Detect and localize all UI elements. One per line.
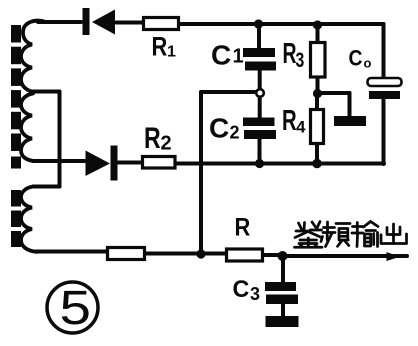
node dot R3-R4 midpoint xyxy=(313,89,322,98)
svg-text:C: C xyxy=(209,113,229,144)
wire ground branch horizontal xyxy=(322,91,350,95)
svg-text:3: 3 xyxy=(296,48,305,72)
svg-text:C: C xyxy=(211,40,231,71)
capacitor C0 top plate (outlined) xyxy=(368,78,402,86)
figure number circle 5 xyxy=(47,282,98,333)
inductor winding tertiary xyxy=(21,187,37,252)
wire D2 to R2 xyxy=(117,161,142,165)
inductor winding upper (secondary top half) xyxy=(21,21,46,92)
char 鉴 xyxy=(296,223,308,232)
char 输 xyxy=(352,223,363,247)
wire right rail upper (corner to C0 top) xyxy=(382,24,386,78)
svg-text:4: 4 xyxy=(296,118,306,137)
wire centre-tap vertical down to tertiary xyxy=(58,92,62,187)
resistor small unlabelled (tertiary series) xyxy=(108,248,145,260)
wire ground branch vertical xyxy=(348,93,352,116)
wire node to C2 top stem xyxy=(258,98,262,118)
wire top rail left (coil top to D1) xyxy=(38,20,81,24)
svg-text:R: R xyxy=(235,213,251,241)
svg-text:2: 2 xyxy=(161,133,172,155)
wire output line xyxy=(282,254,407,258)
node dot output junction / C3 xyxy=(278,251,288,261)
svg-text:5: 5 xyxy=(60,281,92,335)
Chinese label 鉴频输出 drawn as strokes xyxy=(295,222,407,248)
wire top rail R1 to top-right corner xyxy=(179,22,384,26)
node dot top rail / C1 xyxy=(254,19,263,28)
wire R4 bottom stem xyxy=(315,144,319,161)
wire C1 top stem xyxy=(257,26,261,48)
inductor winding middle (secondary bottom half) xyxy=(21,94,34,162)
capacitor C3 plates xyxy=(265,282,296,291)
svg-text:R: R xyxy=(152,32,168,62)
resistor R3 (vertical) xyxy=(311,43,326,78)
capacitor C1 plates xyxy=(243,48,275,57)
svg-text:R: R xyxy=(282,105,297,137)
capacitor C0 bottom plate (solid) xyxy=(369,91,400,99)
svg-text:R: R xyxy=(283,38,297,70)
wire R3 top stem xyxy=(316,26,320,42)
ground bar (near C0) xyxy=(334,116,366,126)
output arrowhead xyxy=(387,252,401,261)
wire C3 top stem xyxy=(281,260,285,282)
wire C2 bottom stem xyxy=(258,139,262,163)
svg-text:C: C xyxy=(349,46,363,70)
svg-text:1: 1 xyxy=(233,46,244,68)
wire R4 top stem xyxy=(315,97,319,109)
resistor R4 (vertical) xyxy=(311,110,324,144)
diode D1 (cathode bar) xyxy=(83,8,90,35)
wire middle rail (R2 right to right rail) xyxy=(176,162,385,166)
char 出 xyxy=(392,224,395,244)
resistor R2 xyxy=(143,157,176,169)
svg-text:1: 1 xyxy=(167,44,176,61)
wire bottom rail R to junction xyxy=(263,253,282,257)
svg-text:R: R xyxy=(144,121,161,155)
node dot top rail / R3 xyxy=(313,20,322,29)
node dot middle rail / C2 xyxy=(255,159,264,168)
wire R3 bottom stem xyxy=(316,77,320,90)
wire centre-tap horizontal xyxy=(31,90,60,94)
resistor R1 xyxy=(144,18,179,30)
wire right rail lower (C0 bottom to middle rail) xyxy=(382,99,386,164)
diode D2 (triangle pointing right) xyxy=(86,151,111,177)
node dot middle rail / R4 xyxy=(312,159,322,169)
node open circle C1-C2 midpoint xyxy=(256,89,264,97)
wire audio takeoff horizontal (C1/C2 mid to left) xyxy=(201,90,256,94)
wire top rail D1 to R1 xyxy=(116,21,143,25)
svg-text:o: o xyxy=(364,56,372,71)
capacitor C2 plates xyxy=(243,118,275,127)
wire bottom rail coil to box xyxy=(36,250,107,254)
wire C3 bottom stem to ground xyxy=(281,304,285,316)
char 频 xyxy=(323,222,335,233)
wire C1 bottom stem to node xyxy=(258,70,262,89)
resistor R (bottom, labelled R) xyxy=(227,249,263,261)
svg-text:2: 2 xyxy=(230,123,240,143)
transformer core (dashed) xyxy=(11,25,21,247)
node dot bottom rail / takeoff xyxy=(196,249,205,258)
wire tertiary top horizontal xyxy=(33,185,60,189)
ground bar (below C3) xyxy=(266,316,299,327)
svg-text:C: C xyxy=(233,275,250,303)
wire middle row left (coil to D2) xyxy=(33,159,86,163)
diode D1 (triangle pointing left) xyxy=(92,10,115,35)
wire bottom rail box to R xyxy=(145,252,226,256)
wire audio takeoff vertical down to bottom rail xyxy=(199,92,203,254)
diode D2 (cathode bar) xyxy=(111,146,118,181)
svg-text:3: 3 xyxy=(250,284,260,304)
